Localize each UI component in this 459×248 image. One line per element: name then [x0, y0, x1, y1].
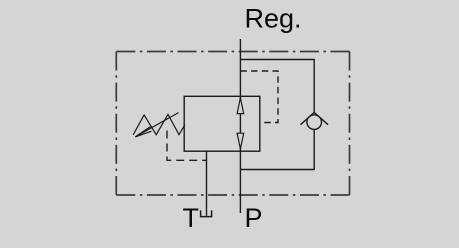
valve body V1 — [184, 96, 260, 151]
enclosure boundary (dash-dot) top edge — [116, 51, 349, 53]
wire: main Reg/P line — [239, 39, 241, 213]
flow arrow down (inside valve) — [237, 133, 244, 149]
enclosure boundary (dash-dot) left edge — [115, 52, 117, 196]
svg-text:Reg.: Reg. — [245, 4, 302, 34]
svg-text:T: T — [183, 203, 200, 233]
drain line (dashed) from spring chamber to T line — [167, 131, 207, 161]
pilot line (dashed) to valve right side — [240, 71, 278, 123]
wire: check valve branch (top + right + bottom) — [240, 60, 314, 170]
check valve seat — [301, 112, 329, 124]
check valve ball — [307, 115, 322, 130]
enclosure boundary (dash-dot) bottom edge — [116, 194, 349, 196]
flow arrow up (inside valve) — [237, 98, 244, 114]
T port cup — [201, 210, 212, 216]
svg-text:P: P — [245, 203, 263, 233]
adjustment arrow across spring — [135, 113, 178, 137]
enclosure boundary (dash-dot) right edge — [349, 52, 351, 196]
spring (adjustable) — [133, 114, 185, 134]
wire: T line — [206, 151, 208, 216]
